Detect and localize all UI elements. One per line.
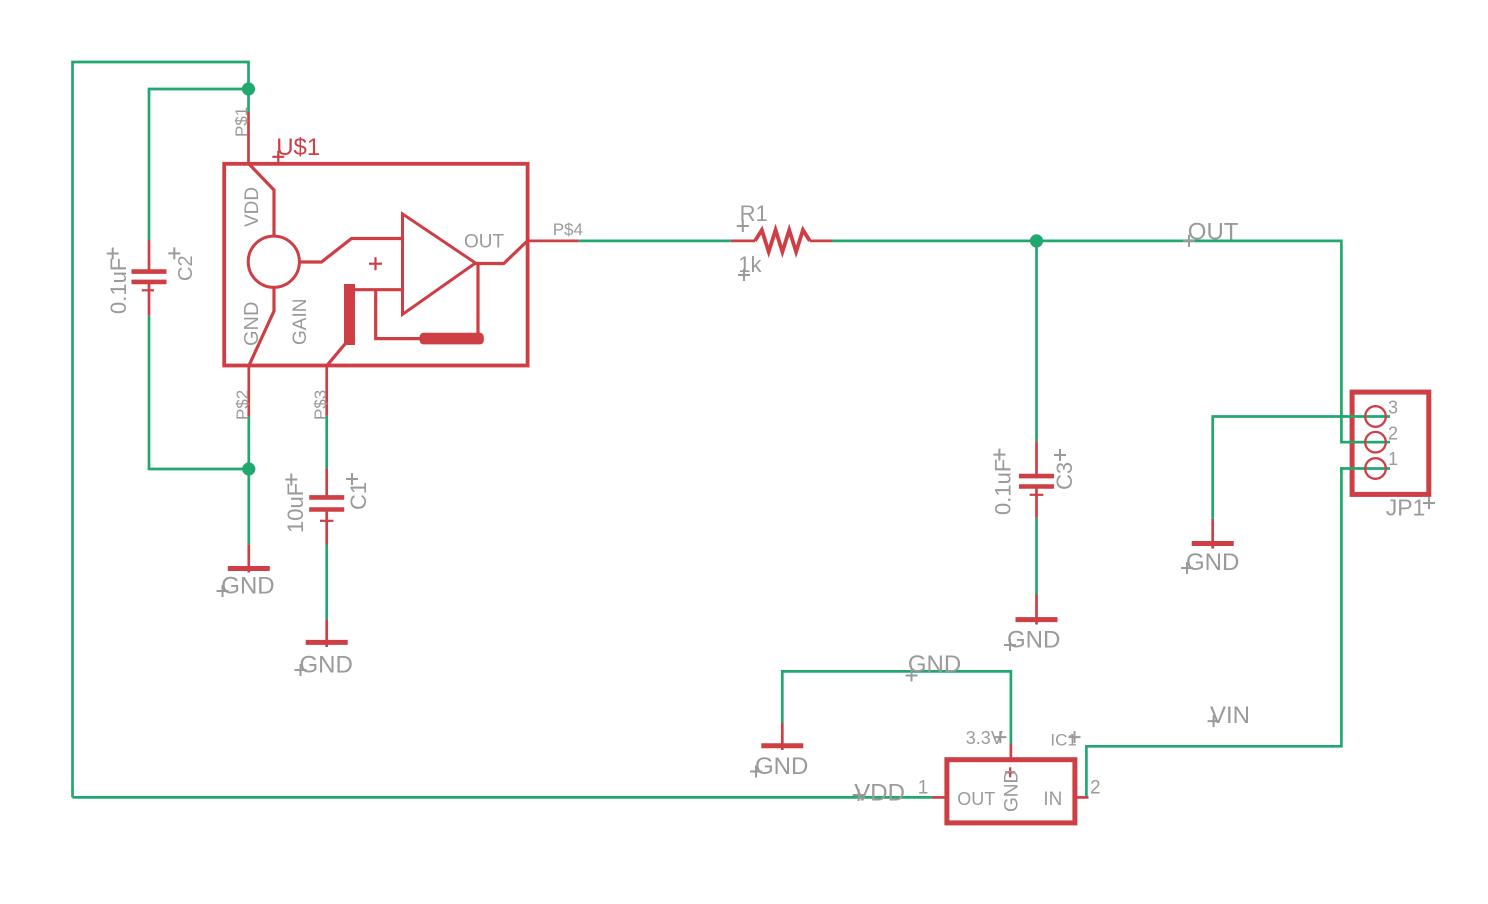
svg-text:1: 1 (1388, 449, 1398, 469)
svg-text:10uF: 10uF (283, 483, 308, 533)
svg-text:VDD: VDD (242, 187, 263, 227)
svg-text:P$1: P$1 (232, 107, 251, 137)
svg-text:1: 1 (918, 778, 929, 799)
svg-text:P$4: P$4 (553, 220, 583, 239)
svg-text:OUT: OUT (464, 231, 505, 252)
svg-text:C1: C1 (346, 482, 371, 510)
svg-text:GND: GND (1007, 626, 1060, 653)
svg-text:GND: GND (755, 753, 808, 780)
svg-text:2: 2 (1090, 778, 1101, 799)
svg-text:GND: GND (300, 651, 353, 678)
svg-text:JP1: JP1 (1386, 494, 1426, 520)
svg-text:GND: GND (908, 651, 961, 678)
svg-text:OUT: OUT (957, 789, 995, 809)
svg-text:VIN: VIN (1210, 702, 1250, 729)
svg-text:IN: IN (1043, 789, 1062, 810)
svg-text:R1: R1 (740, 201, 768, 226)
svg-text:C3: C3 (1052, 462, 1077, 490)
svg-text:2: 2 (1388, 424, 1398, 444)
svg-text:0.1uF: 0.1uF (106, 258, 131, 314)
svg-text:1k: 1k (738, 252, 762, 277)
svg-text:GND: GND (221, 572, 274, 599)
svg-text:GND: GND (1002, 770, 1023, 812)
svg-text:P$3: P$3 (311, 390, 330, 420)
svg-text:P$2: P$2 (233, 390, 252, 420)
svg-text:OUT: OUT (1188, 219, 1239, 246)
svg-text:GND: GND (241, 302, 263, 346)
svg-text:3: 3 (1388, 397, 1398, 417)
svg-text:GAIN: GAIN (290, 299, 311, 345)
svg-text:VDD: VDD (854, 780, 905, 807)
svg-text:GND: GND (1186, 549, 1239, 576)
svg-text:0.1uF: 0.1uF (991, 459, 1016, 515)
svg-text:C2: C2 (175, 255, 197, 281)
svg-text:IC1: IC1 (1050, 731, 1076, 750)
